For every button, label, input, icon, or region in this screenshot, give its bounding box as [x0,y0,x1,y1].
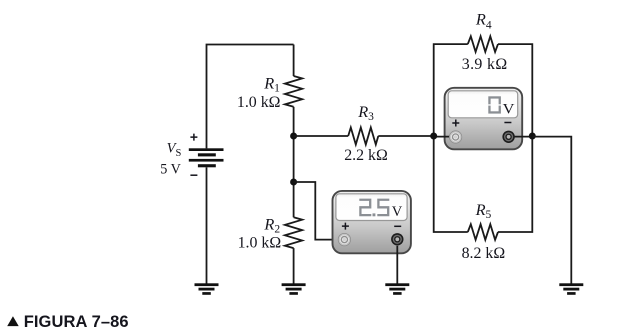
U2 decimal point [373,213,376,216]
ground right [559,283,583,295]
svg-text:R4: R4 [475,10,492,32]
svg-text:R2: R2 [263,215,280,236]
node junction R1/R3 [290,133,297,140]
resistor R1 zigzag [285,76,302,107]
wire battery bottom to ground [206,167,208,283]
wire R1 bottom to R2 top [293,107,295,218]
wire R3 left lead [294,135,349,137]
ground under battery [195,283,219,295]
wire R3 right lead to node A [378,135,433,137]
U1 minus label [504,122,511,124]
U1 plus label [452,120,459,127]
svg-text:R1: R1 [263,74,280,95]
battery minus sign [190,174,197,176]
U2 seven-segment digit 5 [377,200,389,215]
wire node A down and R5 left lead [434,136,468,232]
wire U1 minus terminal to node B [509,136,532,138]
voltmeter U2 body (2.5 V meter) [333,191,411,253]
svg-text:5 V: 5 V [160,161,181,177]
svg-text:V: V [392,203,403,220]
resistor R5 zigzag [468,224,498,240]
wire R5 right lead up to node B [498,136,532,232]
svg-text:V: V [503,101,515,118]
wire node 2 to meter U2 plus terminal [294,182,339,240]
wire R1 top lead [293,45,295,77]
svg-text:R5: R5 [475,200,492,221]
svg-text:1.0 kΩ: 1.0 kΩ [238,234,282,251]
wire R4 right lead down to node B [498,44,532,136]
U2 plus label [342,223,349,230]
resistor R2 zigzag [285,217,302,248]
wire node B to right down to ground [532,137,571,284]
wire node A up and R4 left lead [434,44,468,136]
U1 seven-segment digit 0 [488,97,501,112]
voltmeter U1 body (0 V meter) [445,88,523,150]
svg-text:1.0 kΩ: 1.0 kΩ [237,94,281,111]
ground under R2 [282,283,306,295]
ground under U2 [385,283,409,295]
svg-text:FIGURA 7–86: FIGURA 7–86 [24,313,129,331]
node junction R2/meter wire [290,179,297,186]
U1 minus terminal [502,131,514,143]
battery plus sign [190,134,197,141]
U2 seven-segment digit 2 [359,200,371,215]
node A junction dot [430,133,437,140]
battery VS plates [189,148,224,167]
U2 plus terminal [338,233,350,245]
svg-text:2.2 kΩ: 2.2 kΩ [344,147,388,164]
wire battery top to R1 top [207,45,294,149]
resistor R3 zigzag [348,128,378,145]
wire U2 minus terminal to ground [396,246,398,284]
svg-text:VS: VS [167,141,182,159]
figure caption triangle [7,316,19,326]
node B junction dot [529,133,536,140]
U2 minus label [394,225,401,227]
svg-text:R3: R3 [357,102,374,123]
wire R2 bottom to ground [293,248,295,284]
U1 plus terminal [449,131,461,143]
svg-text:8.2 kΩ: 8.2 kΩ [462,245,506,262]
svg-text:3.9 kΩ: 3.9 kΩ [462,56,508,73]
wire node A to U1 plus terminal [434,136,452,138]
U2 minus terminal [391,233,403,245]
resistor R4 zigzag [468,36,498,52]
